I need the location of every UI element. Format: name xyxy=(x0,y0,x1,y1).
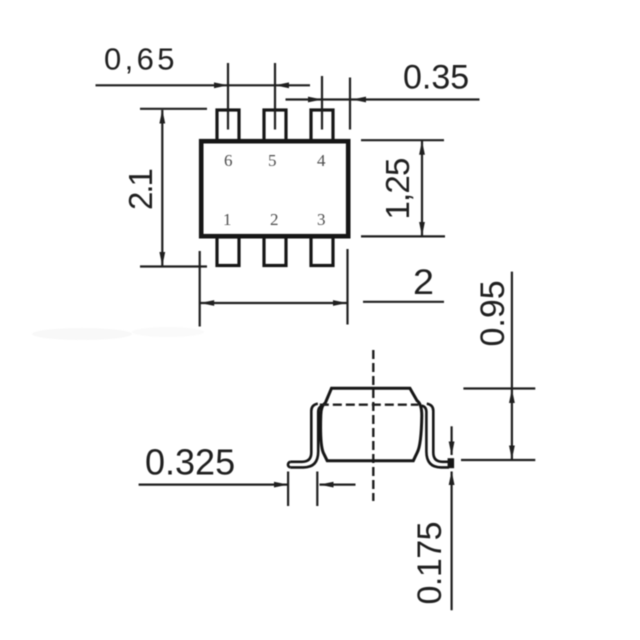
svg-text:3: 3 xyxy=(317,210,326,229)
arrowhead right at pin4 line xyxy=(308,97,322,103)
left gull-wing lead outer line and foot top xyxy=(290,404,318,462)
svg-text:0.95: 0.95 xyxy=(474,280,512,346)
side view dashed parting line xyxy=(320,404,419,406)
arrowhead right at foot tip line xyxy=(274,482,288,488)
dimension line 0.325 right part xyxy=(320,484,356,486)
extension line seating plane xyxy=(461,459,535,461)
extension line foot tip xyxy=(287,472,289,507)
svg-text:1: 1 xyxy=(223,210,232,229)
dimension line 2 xyxy=(200,302,348,304)
dimension line 0.175 upper (arrow down to foot) xyxy=(451,426,453,455)
svg-text:2: 2 xyxy=(413,263,434,302)
dimension line 0.95 with leader up xyxy=(511,272,513,460)
left lead foot rounded end xyxy=(288,462,290,468)
extension line 1,25 top xyxy=(361,139,444,141)
extension line 1,25 bottom xyxy=(361,235,445,237)
arrowhead up 1,25 xyxy=(419,141,425,155)
dimension line 0.175 lower (arrow up to foot) xyxy=(451,472,453,611)
svg-text:0.175: 0.175 xyxy=(411,522,449,605)
arrowhead right dim 2 xyxy=(333,300,347,306)
dimension line 0.325 left part xyxy=(139,484,288,486)
pin bottom-left (pin 1 lead) xyxy=(217,237,239,266)
svg-text:5: 5 xyxy=(268,151,277,170)
arrowhead up 2.1 xyxy=(159,110,165,124)
extension line 2.1 bottom xyxy=(140,265,207,267)
svg-text:0.35: 0.35 xyxy=(403,59,469,97)
arrowhead left dim 2 xyxy=(200,300,214,306)
pin bottom-right (pin 3 lead) xyxy=(311,237,333,266)
dimension line 2.1 xyxy=(161,110,163,266)
side view dashed centerline xyxy=(372,350,374,501)
svg-text:4: 4 xyxy=(317,151,326,170)
extension line 2.1 top xyxy=(140,108,207,110)
svg-text:0.325: 0.325 xyxy=(145,442,235,483)
pin top-right (pin 4 lead) xyxy=(311,110,333,141)
extension line lead outer xyxy=(316,472,318,507)
extension line pin6 center xyxy=(227,63,229,130)
leader line for 2 xyxy=(363,301,444,303)
extension line 0.95 top xyxy=(463,387,535,389)
dimension line 0,65 xyxy=(96,84,311,86)
svg-text:0,65: 0,65 xyxy=(104,42,178,77)
arrowhead down 2.1 xyxy=(159,252,165,266)
right gull-wing lead inner line and foot bottom xyxy=(422,406,449,468)
arrowhead left at body edge line xyxy=(352,97,366,103)
svg-text:2: 2 xyxy=(270,210,279,229)
extension line body right edge (top) xyxy=(349,78,351,130)
pin bottom-middle (pin 2 lead) xyxy=(264,237,286,266)
arrowhead down to foot top xyxy=(449,442,455,456)
right lead foot cut end filled xyxy=(448,458,455,468)
extension line pin4 center xyxy=(321,76,323,130)
right gull-wing lead outer line and foot top xyxy=(427,404,449,462)
arrowhead right at pin6 line xyxy=(214,82,228,88)
svg-text:1,25: 1,25 xyxy=(379,158,416,219)
extension line body left (bottom) xyxy=(199,251,201,327)
arrowhead up 0.95 xyxy=(509,389,515,403)
package body top view xyxy=(201,141,348,236)
left gull-wing lead inner line and foot bottom xyxy=(290,406,323,468)
arrowhead down 1,25 xyxy=(419,222,425,236)
pin top-left (pin 6 lead) xyxy=(217,110,239,141)
arrowhead down 0.95 xyxy=(509,446,515,460)
arrowhead up to foot bottom xyxy=(449,471,455,485)
pin top-middle (pin 5 lead) xyxy=(264,110,286,141)
side view body outline xyxy=(321,388,422,460)
dimension line 0.35 xyxy=(286,98,480,100)
svg-text:6: 6 xyxy=(224,151,233,170)
extension line body right (bottom) xyxy=(346,249,348,325)
svg-text:2.1: 2.1 xyxy=(122,169,159,210)
arrowhead left at lead outer line xyxy=(320,482,334,488)
dimension line 1,25 xyxy=(421,141,423,236)
extension line pin5 center xyxy=(274,63,276,130)
arrowhead left at pin5 line xyxy=(275,82,289,88)
